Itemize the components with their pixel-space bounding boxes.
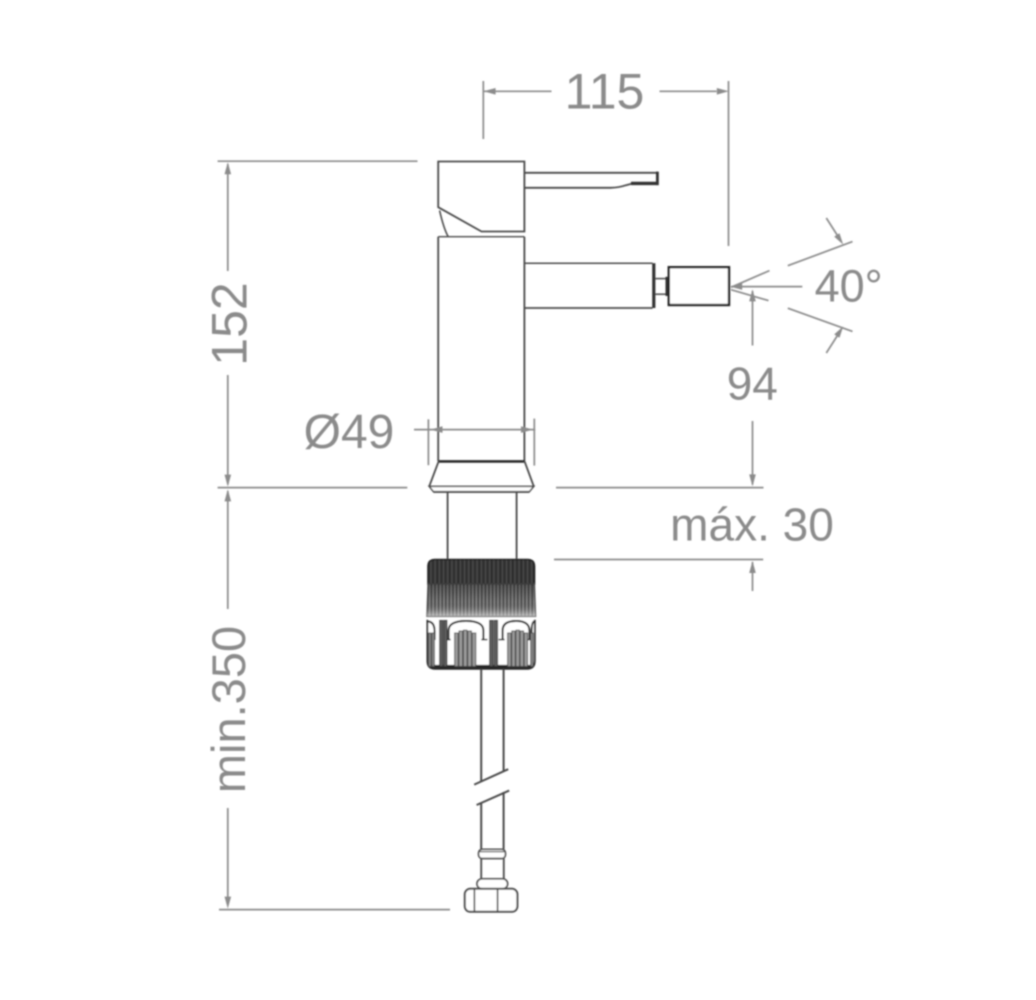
angle arc arrow upper line xyxy=(826,218,841,242)
head collar curve xyxy=(440,211,449,237)
angle arc arrowhead lower xyxy=(834,326,843,337)
dim max30 lower arrow tail xyxy=(752,562,754,591)
dim dia49 line xyxy=(414,429,535,431)
aerator outlet xyxy=(669,267,729,305)
aerator neck xyxy=(655,277,667,296)
lever handle xyxy=(524,172,657,188)
nut arch 2 xyxy=(503,621,530,640)
nut edge bars left xyxy=(429,633,435,666)
spout bottom edge xyxy=(524,307,652,309)
nut pillar bars cluster A xyxy=(440,620,447,666)
spray centerline xyxy=(731,286,802,288)
faucet head (cartridge cover) xyxy=(438,162,524,232)
hose break mark upper xyxy=(474,769,508,784)
angle arc arrow lower line xyxy=(826,330,841,354)
nut arch 2 feet xyxy=(499,639,534,641)
svg-text:40°: 40° xyxy=(815,260,883,311)
spray upper line far xyxy=(788,242,853,266)
escutcheon cone sides xyxy=(429,461,534,486)
angle arc arrowhead upper xyxy=(834,233,843,244)
mounting nut top knurled band xyxy=(428,560,535,584)
dim dia49 arrowhead right xyxy=(521,426,533,433)
body column left edge xyxy=(437,237,439,462)
spout end face xyxy=(652,263,655,308)
svg-text:min.350: min.350 xyxy=(202,626,255,793)
threaded shank right xyxy=(516,493,518,559)
supply hose right edge xyxy=(503,669,505,849)
nut pipe bars under arch 1 xyxy=(455,630,476,666)
nut pipe bars under arch 2 xyxy=(508,630,528,666)
mounting nut middle knurled band xyxy=(427,584,536,616)
body column right edge xyxy=(523,237,525,462)
body top joint line xyxy=(438,236,524,238)
hose end bulge ring xyxy=(477,879,508,889)
hex nut facet line left xyxy=(473,890,475,912)
dim 94 vertical line xyxy=(752,291,754,485)
dim 152 arrowhead top xyxy=(225,162,232,174)
dim 94 arrowhead bottom xyxy=(749,474,756,486)
spray upper line near xyxy=(731,271,770,288)
nut top extension line right xyxy=(554,559,763,561)
dim 115 extension line right xyxy=(728,81,730,246)
hose end collar inner line xyxy=(480,851,505,853)
deck extension line right xyxy=(556,487,764,489)
dim 94 arrowhead top xyxy=(749,289,756,301)
hose end ferrule xyxy=(481,859,504,880)
dim 115 arrowhead right xyxy=(717,88,729,95)
nut arch left partial xyxy=(428,621,435,640)
spray lower line far xyxy=(788,308,853,331)
nut edge bars right xyxy=(531,633,534,666)
escutcheon base flange xyxy=(429,486,534,492)
svg-text:Ø49: Ø49 xyxy=(304,406,395,459)
deck extension line left xyxy=(218,487,408,489)
nut arch 1 xyxy=(449,621,484,640)
dim 152 arrowhead bottom xyxy=(225,475,232,487)
svg-text:máx. 30: máx. 30 xyxy=(670,499,834,551)
dim min350 arrowhead top xyxy=(225,489,232,501)
nut arch 1 feet xyxy=(445,639,488,641)
dim 152 top extension line xyxy=(218,160,418,162)
svg-text:94: 94 xyxy=(727,358,778,410)
threaded shank left xyxy=(447,493,449,559)
dim min350 vertical line xyxy=(227,491,229,905)
escutcheon cone top edge xyxy=(439,460,525,463)
spout top edge xyxy=(524,262,652,264)
dim dia49 tick left xyxy=(427,419,429,465)
dim 152 vertical line xyxy=(227,164,229,485)
svg-text:115: 115 xyxy=(565,64,645,120)
hose end collar xyxy=(479,849,506,858)
hose break mark lower xyxy=(477,791,510,805)
nut lower body bottom edge xyxy=(431,665,531,668)
hose end hex nut xyxy=(465,889,518,912)
nut arch right partial xyxy=(532,621,535,640)
dim 115 arrowhead left xyxy=(484,88,496,95)
dim min350 arrowhead bottom xyxy=(225,897,232,909)
mounting nut lower body xyxy=(427,620,534,669)
escutcheon base flange bottom edge xyxy=(434,491,530,493)
dim 115 extension line left xyxy=(482,81,484,139)
spray lower line near xyxy=(731,290,769,301)
spray centerline arrowhead xyxy=(730,283,742,290)
dim 115 line left segment xyxy=(484,90,552,92)
dim 115 line right segment xyxy=(660,90,717,92)
hex nut facet line right xyxy=(497,890,499,912)
dim dia49 tick right xyxy=(533,419,535,466)
dim max30 arrowhead up xyxy=(749,561,756,573)
supply hose left edge xyxy=(480,669,482,849)
nut pillar bars cluster B xyxy=(490,620,498,666)
dim dia49 arrowhead left xyxy=(431,426,443,433)
svg-text:152: 152 xyxy=(202,282,258,365)
dim min350 bottom extension line xyxy=(219,909,450,911)
